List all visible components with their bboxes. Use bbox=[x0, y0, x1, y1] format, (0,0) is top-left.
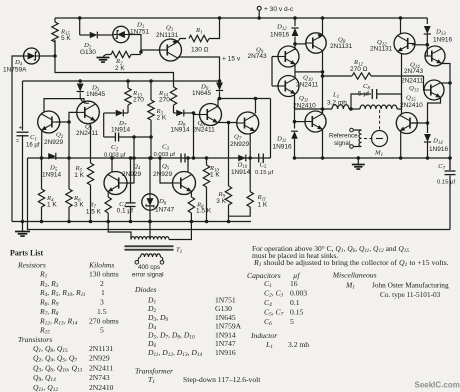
svg-text:1: 1 bbox=[101, 288, 105, 297]
svg-text:2N2411: 2N2411 bbox=[89, 363, 113, 372]
motor M1 bbox=[372, 131, 388, 147]
label C8 value bbox=[358, 91, 369, 98]
svg-text:1.5 K: 1.5 K bbox=[196, 208, 212, 215]
svg-text:SeekIC.com: SeekIC.com bbox=[415, 381, 460, 390]
svg-text:T1: T1 bbox=[176, 247, 182, 256]
label Q9 value bbox=[248, 53, 268, 60]
label C1 bbox=[30, 134, 37, 143]
label capacitor rows bbox=[264, 279, 307, 328]
label D1 bbox=[136, 22, 144, 31]
svg-text:3: 3 bbox=[100, 298, 104, 307]
svg-text:130 Ω: 130 Ω bbox=[191, 47, 209, 54]
reference signal terminals bbox=[350, 128, 362, 148]
transistor Q4 bbox=[104, 172, 127, 195]
label R11 value bbox=[258, 202, 268, 209]
wire Q11 emitter bbox=[321, 130, 325, 160]
svg-text:0.1: 0.1 bbox=[290, 298, 300, 307]
wire rail3 bbox=[23, 80, 220, 82]
resistor R11 bbox=[229, 158, 254, 216]
label R6 bbox=[73, 195, 81, 204]
label Q13 bbox=[409, 85, 419, 94]
wire Q11 collector bbox=[322, 107, 324, 113]
transistor Q7 bbox=[237, 112, 259, 134]
wire D4 to R15 node bbox=[40, 54, 57, 58]
wire D13 branch bbox=[426, 18, 428, 24]
label D5 value bbox=[42, 172, 62, 179]
label C8 bbox=[363, 83, 370, 92]
label R13 bbox=[132, 90, 143, 99]
svg-text:1N916: 1N916 bbox=[429, 146, 449, 153]
label R5 value bbox=[74, 172, 84, 179]
label T1 row bbox=[148, 375, 261, 385]
wire Q13 collector bbox=[441, 82, 451, 84]
wire Q8 collector bbox=[321, 16, 325, 35]
diode D3 bbox=[77, 84, 84, 92]
svg-text:3.2 mh: 3.2 mh bbox=[288, 340, 309, 349]
svg-text:2N929: 2N929 bbox=[230, 141, 250, 148]
label R13 value bbox=[133, 97, 144, 104]
svg-text:5: 5 bbox=[290, 317, 294, 326]
wire R1 to rail bbox=[209, 16, 221, 38]
label C2 value bbox=[104, 153, 126, 159]
svg-text:M1: M1 bbox=[374, 150, 383, 159]
transistor Q14 bbox=[425, 46, 445, 66]
svg-text:2N743: 2N743 bbox=[404, 68, 424, 75]
svg-text:400 cps: 400 cps bbox=[138, 264, 160, 271]
wire Q4 collector bbox=[110, 156, 114, 172]
svg-text:+: + bbox=[19, 125, 23, 132]
svg-text:0.15 µf: 0.15 µf bbox=[255, 170, 273, 176]
label R10 bbox=[209, 165, 220, 174]
label R4 bbox=[46, 195, 54, 204]
svg-text:2N929: 2N929 bbox=[44, 139, 64, 146]
label D11 bbox=[276, 136, 286, 145]
svg-text:2N929: 2N929 bbox=[122, 171, 142, 178]
ground G2 bbox=[15, 222, 30, 237]
transistor Q11 bbox=[305, 111, 326, 132]
wire Q8 base bbox=[295, 43, 306, 45]
label M1 bbox=[374, 150, 383, 159]
svg-text:T1: T1 bbox=[148, 375, 155, 385]
wire L1 to Q15 bbox=[397, 108, 402, 110]
label L1 bbox=[332, 92, 339, 101]
label D10 value bbox=[231, 169, 251, 176]
label D12 value bbox=[270, 32, 290, 39]
label C5 value bbox=[255, 170, 273, 176]
svg-text:1N747: 1N747 bbox=[215, 339, 236, 348]
svg-text:3 K: 3 K bbox=[216, 198, 226, 205]
label D2 value bbox=[80, 49, 96, 56]
wire C1 column bbox=[21, 81, 25, 223]
label R7 bbox=[89, 202, 97, 211]
label Q1 bbox=[166, 25, 173, 34]
wire Q12-Q15 column bbox=[401, 53, 403, 114]
label R14 value bbox=[159, 97, 170, 104]
wire Q15 emitter bbox=[399, 132, 403, 160]
label Inductor header bbox=[250, 331, 277, 340]
capacitor C4 bbox=[126, 156, 136, 223]
wire Q2 emitter bbox=[41, 130, 43, 159]
label R12 value bbox=[350, 66, 368, 73]
svg-text:error signal: error signal bbox=[132, 272, 164, 279]
label Diodes header bbox=[134, 285, 157, 294]
diode D8 bbox=[174, 110, 196, 117]
svg-text:1N747: 1N747 bbox=[155, 207, 175, 214]
label R15 value bbox=[61, 35, 71, 42]
label R14 bbox=[158, 90, 169, 99]
diode D9 bbox=[216, 83, 223, 91]
wire bus B bbox=[28, 158, 451, 230]
label Q1 value bbox=[156, 32, 179, 39]
label +30v d-c bbox=[264, 6, 294, 13]
transistor Q12 bbox=[394, 33, 415, 54]
label Capacitors header bbox=[247, 271, 300, 280]
svg-text:Q1, Q8, Q15: Q1, Q8, Q15 bbox=[33, 344, 68, 354]
wire Q5 collector bbox=[186, 156, 190, 172]
label D2 bbox=[83, 42, 92, 51]
svg-text:C3: C3 bbox=[162, 144, 169, 153]
diode D10 bbox=[238, 155, 246, 162]
label D12 bbox=[276, 24, 287, 33]
diode D7 bbox=[104, 110, 128, 117]
svg-text:1N751: 1N751 bbox=[215, 296, 236, 305]
resistor R4 bbox=[38, 156, 44, 223]
label C7 bbox=[438, 163, 445, 172]
svg-text:G130: G130 bbox=[215, 304, 232, 313]
wire Q6 base bbox=[194, 114, 200, 116]
svg-text:2N1131: 2N1131 bbox=[330, 43, 353, 50]
svg-text:Parts List: Parts List bbox=[10, 249, 43, 258]
ground G1 bbox=[97, 55, 110, 63]
label Q6 bbox=[198, 120, 206, 129]
label D3 bbox=[91, 85, 100, 94]
svg-text:R1: R1 bbox=[195, 27, 203, 36]
label transistor rows bbox=[33, 344, 114, 392]
svg-text:270: 270 bbox=[133, 97, 144, 104]
label C3 value bbox=[154, 152, 176, 158]
label R5 bbox=[75, 165, 83, 174]
svg-text:2N2410: 2N2410 bbox=[400, 102, 423, 109]
diode D13 bbox=[424, 26, 431, 47]
wire Q15 base bbox=[410, 121, 429, 125]
wire Q10 base bbox=[272, 85, 278, 87]
svg-text:130 ohms: 130 ohms bbox=[89, 270, 119, 279]
resistor R1 bbox=[189, 35, 209, 41]
svg-text:2N2410: 2N2410 bbox=[89, 383, 114, 392]
svg-text:2 K: 2 K bbox=[115, 65, 125, 72]
label C4 value bbox=[117, 208, 134, 215]
svg-text:1N759A: 1N759A bbox=[215, 322, 242, 331]
svg-text:D6: D6 bbox=[158, 198, 167, 207]
label D7 value bbox=[111, 127, 131, 134]
label R8 bbox=[196, 202, 204, 211]
label SeekIC watermark bbox=[415, 381, 460, 390]
diode D14 bbox=[424, 123, 431, 160]
transistor Q10 bbox=[278, 76, 299, 97]
svg-text:270 ohms: 270 ohms bbox=[89, 316, 119, 325]
label note3 bbox=[253, 258, 449, 268]
label Q2 value bbox=[44, 139, 64, 146]
wire Q5 base bbox=[158, 156, 172, 183]
svg-text:2N929: 2N929 bbox=[153, 171, 173, 178]
resistor R10 bbox=[203, 156, 209, 223]
svg-text:C1: C1 bbox=[30, 134, 37, 143]
label Q13 value bbox=[401, 78, 424, 85]
label R3 value bbox=[157, 115, 167, 122]
label Q2 bbox=[56, 132, 64, 141]
svg-text:1N916: 1N916 bbox=[273, 143, 293, 150]
svg-text:L1: L1 bbox=[265, 340, 273, 350]
svg-text:Transistors: Transistors bbox=[18, 335, 52, 344]
label Q14 bbox=[410, 62, 420, 71]
wire Q10 collector bbox=[294, 72, 296, 78]
resistor R5 bbox=[87, 163, 93, 223]
label Q12 value bbox=[370, 46, 393, 53]
inductor L1 bbox=[332, 105, 397, 109]
label +15v bbox=[222, 56, 241, 63]
svg-text:+ 30 v d-c: + 30 v d-c bbox=[264, 6, 294, 13]
transistor Q5 bbox=[173, 172, 196, 195]
label D6 value bbox=[155, 207, 175, 214]
resistor R12 bbox=[324, 73, 424, 79]
label Reference bbox=[329, 133, 358, 140]
label D13 bbox=[435, 29, 446, 38]
label Q4 bbox=[133, 163, 141, 172]
label Q7 value bbox=[230, 141, 250, 148]
wire T1 centre tap bbox=[148, 220, 152, 240]
label D8 bbox=[177, 120, 186, 129]
label D3 value bbox=[86, 91, 106, 98]
label D4 value bbox=[3, 67, 27, 74]
resistor R15 bbox=[52, 18, 58, 56]
diode D11 bbox=[291, 95, 298, 160]
svg-text:1N916: 1N916 bbox=[270, 32, 290, 39]
wire Q9 base bbox=[272, 57, 278, 87]
resistor R9 bbox=[225, 123, 231, 224]
svg-text:5 µf: 5 µf bbox=[358, 91, 369, 98]
label R2 bbox=[115, 58, 123, 67]
svg-text:2N2411: 2N2411 bbox=[401, 78, 424, 85]
svg-text:R12, R13, R14: R12, R13, R14 bbox=[39, 316, 78, 326]
svg-text:2 K: 2 K bbox=[157, 115, 167, 122]
reference signal coil bbox=[359, 130, 362, 147]
wire T1 left lead bbox=[108, 222, 131, 240]
wire C5 to Q7 collector link bbox=[270, 99, 272, 159]
svg-text:Q3, Q6, Q10, Q13: Q3, Q6, Q10, Q13 bbox=[33, 363, 83, 373]
label R3 bbox=[156, 108, 164, 117]
svg-text:C6: C6 bbox=[264, 317, 272, 327]
wire D3 hang bbox=[78, 79, 82, 83]
transistor Q13 bbox=[424, 80, 444, 100]
label C4 bbox=[119, 201, 126, 210]
wire Q1 emitter to R1 bbox=[178, 39, 187, 43]
transistor Q3 bbox=[77, 101, 100, 124]
wire right coupling column bbox=[192, 113, 196, 160]
label diode rows bbox=[147, 296, 242, 359]
terminal +30V bbox=[257, 6, 261, 20]
transistor Q15 bbox=[396, 113, 417, 134]
transistor Q9 bbox=[278, 46, 299, 67]
resistor R8 bbox=[188, 193, 194, 224]
svg-text:5 K: 5 K bbox=[61, 35, 71, 42]
svg-text:1N914: 1N914 bbox=[42, 172, 62, 179]
capacitor C2 bbox=[104, 133, 153, 142]
wire Q6 emitter bbox=[218, 121, 230, 125]
transformer T1 core bbox=[125, 245, 174, 250]
svg-text:Q13: Q13 bbox=[409, 85, 419, 94]
label C2 bbox=[111, 144, 118, 153]
label R8 value bbox=[196, 208, 212, 215]
svg-text:5: 5 bbox=[100, 326, 104, 335]
svg-text:0.003 µf: 0.003 µf bbox=[104, 153, 126, 159]
label D9 bbox=[200, 84, 209, 93]
svg-text:2N743: 2N743 bbox=[248, 53, 268, 60]
wire top +30V rail bbox=[55, 17, 428, 19]
wire Q14 emitter bbox=[442, 64, 452, 171]
svg-text:3 K: 3 K bbox=[74, 202, 84, 209]
transistor Q6 bbox=[200, 104, 222, 126]
wire Q1 collector to +15 bbox=[178, 57, 221, 83]
label Transformer header bbox=[135, 367, 173, 376]
svg-text:0.003 µf: 0.003 µf bbox=[154, 152, 176, 158]
wire left vertical from D4 bbox=[12, 56, 24, 222]
wire D1 to node bbox=[129, 35, 143, 54]
svg-text:2N2411: 2N2411 bbox=[193, 127, 216, 134]
svg-text:+ 15 v: + 15 v bbox=[222, 56, 241, 63]
svg-text:1N645: 1N645 bbox=[215, 313, 236, 322]
wire D9 to Q7 bbox=[218, 92, 271, 114]
svg-text:C5: C5 bbox=[260, 162, 267, 171]
label L1 row bbox=[265, 340, 309, 350]
svg-text:Kilohms: Kilohms bbox=[88, 261, 114, 270]
svg-text:Miscellaneous: Miscellaneous bbox=[332, 271, 377, 280]
label T1 bbox=[176, 247, 182, 256]
svg-text:2N2411: 2N2411 bbox=[76, 130, 99, 137]
label D14 value bbox=[429, 146, 449, 153]
svg-text:D14: D14 bbox=[432, 138, 443, 147]
diode D6 bbox=[142, 156, 158, 223]
svg-text:R1 should be adjusted to bring: R1 should be adjusted to bring the colle… bbox=[253, 258, 449, 268]
svg-text:2N743: 2N743 bbox=[89, 373, 110, 382]
label note2 bbox=[252, 251, 338, 260]
label R4 value bbox=[47, 202, 57, 209]
resistor R13 bbox=[125, 79, 131, 113]
wire D2 to D1 bbox=[98, 34, 114, 36]
diode D4 bbox=[24, 48, 40, 64]
wire D11 node bbox=[293, 120, 305, 124]
ground G3 bbox=[352, 156, 365, 169]
svg-text:2N2410: 2N2410 bbox=[293, 102, 316, 109]
svg-text:Q2, Q4, Q5, Q7: Q2, Q4, Q5, Q7 bbox=[33, 354, 77, 364]
wire Q3 emitter bbox=[90, 124, 92, 164]
svg-text:2N2411: 2N2411 bbox=[296, 82, 319, 89]
label Q12 bbox=[377, 39, 387, 48]
capacitor C1 bbox=[16, 125, 29, 145]
label Resistors header bbox=[17, 261, 114, 270]
wire Q3 base bbox=[67, 112, 77, 159]
label R1 bbox=[195, 27, 203, 36]
svg-text:1.5: 1.5 bbox=[97, 307, 107, 316]
label R1 value bbox=[191, 47, 209, 54]
svg-text:1N645: 1N645 bbox=[86, 91, 106, 98]
label Q11 value bbox=[293, 102, 316, 109]
label R7 value bbox=[86, 209, 102, 216]
capacitor C5 bbox=[259, 154, 264, 163]
svg-text:1 K: 1 K bbox=[210, 172, 220, 179]
svg-text:M1: M1 bbox=[345, 281, 355, 291]
label R11 bbox=[257, 194, 267, 203]
svg-text:3.2 mh: 3.2 mh bbox=[327, 100, 347, 107]
svg-text:2N1131: 2N1131 bbox=[156, 32, 179, 39]
svg-text:=: = bbox=[16, 139, 19, 145]
wire D7 down bbox=[103, 113, 105, 137]
svg-text:Transformer: Transformer bbox=[135, 367, 173, 376]
svg-text:C7: C7 bbox=[438, 163, 445, 172]
capacitor C3 bbox=[181, 154, 185, 163]
label R15 bbox=[60, 29, 71, 38]
label D14 bbox=[432, 138, 443, 147]
svg-text:Diodes: Diodes bbox=[134, 285, 157, 294]
transistor Q2 bbox=[38, 111, 60, 133]
label Q5 value bbox=[153, 171, 173, 178]
svg-text:1 K: 1 K bbox=[47, 202, 57, 209]
label C1 value bbox=[26, 143, 40, 149]
label Q9 bbox=[256, 47, 264, 56]
svg-text:270: 270 bbox=[159, 97, 170, 104]
label Q15 value bbox=[400, 102, 423, 109]
label C5 bbox=[260, 162, 267, 171]
svg-text:16: 16 bbox=[290, 279, 298, 288]
svg-text:John Oster Manufacturing: John Oster Manufacturing bbox=[372, 281, 449, 290]
svg-text:1N914: 1N914 bbox=[111, 127, 131, 134]
wire inductor line bbox=[295, 107, 332, 111]
wire Q7 emitter bbox=[248, 134, 252, 160]
label D9 value bbox=[192, 90, 212, 97]
svg-text:270 Ω: 270 Ω bbox=[350, 66, 368, 73]
svg-text:2N1131: 2N1131 bbox=[89, 344, 113, 353]
svg-text:signal: signal bbox=[334, 140, 350, 147]
label Q3 bbox=[85, 124, 93, 133]
label R9 bbox=[218, 191, 226, 200]
wire motor dashes vertical bbox=[379, 110, 381, 130]
label Transistors header bbox=[18, 335, 52, 344]
label Q4 value bbox=[122, 171, 142, 178]
svg-text:D11, D12, D13, D14: D11, D12, D13, D14 bbox=[147, 348, 203, 358]
svg-text:0.1 µf: 0.1 µf bbox=[117, 208, 134, 215]
svg-text:0.15 µf: 0.15 µf bbox=[437, 180, 455, 186]
label error signal bbox=[132, 272, 164, 279]
label D1 value bbox=[130, 29, 150, 36]
wire Q13 emitter bbox=[428, 97, 441, 123]
svg-text:C2: C2 bbox=[111, 144, 118, 153]
label Q7 bbox=[234, 134, 242, 143]
transformer T1 secondary bbox=[135, 254, 164, 264]
label R6 value bbox=[74, 202, 84, 209]
wire D2 branch bbox=[78, 16, 90, 35]
svg-text:1 K: 1 K bbox=[74, 172, 84, 179]
label R2 value bbox=[115, 65, 125, 72]
svg-text:1 K: 1 K bbox=[258, 202, 268, 209]
svg-text:2N1131: 2N1131 bbox=[370, 46, 393, 53]
wire mid rail4 right bbox=[295, 157, 451, 159]
resistor R2 bbox=[106, 51, 141, 57]
svg-text:Inductor: Inductor bbox=[250, 331, 277, 340]
label 400 cps bbox=[138, 264, 160, 271]
svg-text:1N916: 1N916 bbox=[433, 37, 453, 44]
svg-text:1N759A: 1N759A bbox=[3, 67, 27, 74]
wire Q12 feed bbox=[399, 16, 403, 34]
wire T1 right lead bbox=[169, 222, 191, 240]
